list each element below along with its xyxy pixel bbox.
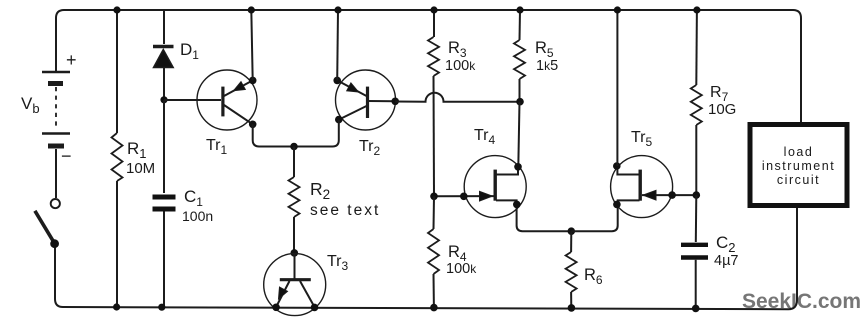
svg-text:10G: 10G	[708, 101, 736, 118]
junction dot top rail Tr5	[614, 6, 621, 13]
junction dot top rail R3	[430, 6, 437, 13]
junction dot Tr4 drain	[514, 163, 522, 171]
resistor R6	[566, 231, 577, 308]
svg-text:see text: see text	[310, 202, 380, 219]
junction dot R4 top node	[430, 193, 438, 201]
junction dot C2 bottom	[692, 305, 700, 313]
diode D1	[153, 10, 174, 100]
junction dot Tr2 collector	[335, 116, 343, 124]
svg-text:4µ7: 4µ7	[714, 253, 738, 269]
junction dot Tr5 gate circle edge	[668, 191, 676, 199]
wire C2 node down	[695, 195, 698, 242]
junction dot Tr3 emitter	[272, 304, 280, 312]
resistor R1	[112, 10, 123, 307]
resistor R4	[428, 196, 439, 307]
junction dot R1 top	[113, 6, 120, 13]
SeekIC.com watermark	[742, 290, 861, 313]
svg-text:load: load	[784, 145, 814, 159]
wire bottom ground rail	[55, 208, 797, 309]
resistor R5	[514, 10, 525, 102]
transistor Tr3 (NPN, rotated)	[264, 253, 326, 316]
svg-text:10M: 10M	[126, 160, 155, 177]
svg-text:100n: 100n	[182, 208, 213, 224]
switch (open)	[35, 199, 60, 243]
wire top supply rail	[56, 10, 801, 122]
wire R5 node down to Tr4 drain	[518, 102, 519, 167]
junction dot Tr3 collector	[311, 304, 319, 312]
resistor R7	[691, 10, 702, 195]
transistor Tr4 (JFET)	[434, 156, 571, 232]
svg-text:instrument: instrument	[762, 159, 835, 173]
junction dot Tr2 base	[391, 98, 399, 106]
svg-text:1k5: 1k5	[536, 58, 558, 74]
junction dot top rail R5	[516, 6, 523, 13]
capacitor C2	[681, 245, 708, 308]
junction dot Tr5 gate / C2 node	[693, 191, 701, 199]
battery Vb	[42, 72, 70, 198]
wire D1 node down to C1	[163, 100, 165, 193]
transistor Tr1 (PNP)	[197, 70, 257, 130]
junction dot R2 top node	[290, 143, 298, 151]
junction dot Tr1 emitter	[249, 77, 257, 85]
junction dot R1 bottom	[113, 303, 120, 310]
wire Tr2 base to R5 node with hop over R3 wire	[395, 93, 520, 102]
svg-text:circuit: circuit	[777, 173, 820, 187]
svg-text:100k: 100k	[445, 58, 476, 74]
junction dot R5 bottom node	[516, 98, 524, 106]
junction dot Tr5 drain	[613, 162, 621, 170]
junction dot D1 node	[160, 96, 167, 103]
wire Tr1 emitter to top rail	[251, 10, 252, 80]
junction dot Tr4 source	[513, 201, 521, 209]
svg-text:100k: 100k	[446, 261, 477, 277]
wire Tr5 drain to top rail	[616, 10, 618, 166]
wire D1 node to Tr1 base	[164, 99, 221, 101]
resistor R3	[428, 10, 439, 196]
transistor Tr5 (JFET, mirrored)	[571, 156, 696, 232]
junction dot C1 bottom	[158, 304, 165, 311]
load instrument circuit box	[750, 125, 847, 206]
resistor R2	[289, 147, 300, 253]
junction dot Tr1 collector	[249, 121, 257, 129]
junction dot top rail R7	[693, 6, 700, 13]
junction dot top rail Tr2	[334, 6, 341, 13]
junction dot R6 top node	[568, 227, 576, 235]
svg-text:+: +	[66, 50, 77, 70]
wire Tr1 collector down to R2 node	[253, 124, 294, 146]
switch pivot dot	[50, 239, 59, 248]
junction dot Tr3 base node	[291, 249, 299, 257]
junction dot top rail Tr1	[248, 6, 255, 13]
transistor Tr2 (PNP, mirrored)	[336, 70, 396, 130]
wire Tr2 collector down to R2 node	[294, 120, 339, 147]
junction dot R4 bottom	[430, 304, 438, 312]
svg-text:−: −	[61, 146, 72, 166]
junction dot R6 bottom	[568, 304, 576, 312]
wire Tr2 emitter to top rail	[336, 10, 339, 80]
capacitor C1	[153, 197, 176, 307]
junction dot Tr4 gate circle edge	[460, 193, 468, 201]
junction dot Tr2 emitter	[333, 77, 341, 85]
junction dot Tr5 source	[613, 201, 621, 209]
